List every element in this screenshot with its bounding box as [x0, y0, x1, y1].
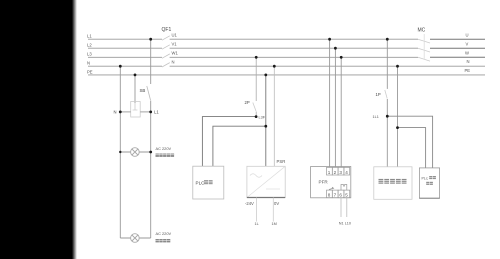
- junction PE-socket tap: [134, 74, 137, 77]
- breaker 2P blade: [253, 103, 256, 112]
- svg-text:3: 3: [339, 170, 342, 175]
- junction L2-PFR tap: [334, 47, 337, 50]
- relay PFR box: [311, 167, 351, 198]
- svg-text:4: 4: [345, 170, 348, 175]
- wire 1P lower: [386, 99, 388, 167]
- lamp EL label blobs: [156, 239, 171, 242]
- wire PSR -24V stub: [255, 198, 257, 222]
- svg-text:1M: 1M: [272, 222, 277, 226]
- svg-text:PFR: PFR: [319, 180, 329, 185]
- junction N-PSR tap: [273, 65, 276, 68]
- wire N bus: [88, 65, 485, 67]
- junction L1-SB tap: [149, 38, 152, 41]
- svg-text:W: W: [465, 51, 469, 56]
- svg-text:N: N: [87, 60, 90, 65]
- svg-text:MC: MC: [418, 28, 426, 34]
- svg-text:PLC: PLC: [422, 176, 429, 180]
- svg-text:N: N: [467, 59, 470, 64]
- svg-text:PSR: PSR: [277, 159, 286, 164]
- box electromagnet label blobs: [379, 179, 407, 184]
- junction N branch node: [396, 126, 399, 129]
- wire PFR out 6: [340, 198, 342, 217]
- svg-text:0V: 0V: [274, 201, 279, 206]
- svg-text:U: U: [466, 32, 469, 37]
- svg-text:PE: PE: [87, 69, 93, 74]
- wire PFR drop 2: [334, 48, 336, 167]
- svg-text:5: 5: [345, 193, 348, 198]
- junction L3-2P tap: [255, 56, 258, 59]
- junction L1-1P tap: [386, 38, 389, 41]
- wire socket L side: [140, 111, 151, 113]
- junction 1P out node 1L1: [386, 115, 389, 118]
- svg-text:V: V: [466, 41, 469, 46]
- junction lamp left: [119, 151, 121, 153]
- svg-text:-24V: -24V: [245, 201, 254, 206]
- svg-text:L1: L1: [87, 34, 92, 39]
- svg-text:L10: L10: [345, 222, 351, 226]
- svg-text:L3: L3: [87, 52, 92, 57]
- wire L2 bus: [88, 47, 418, 49]
- svg-text:2: 2: [334, 170, 337, 175]
- wire N drop to PSR: [273, 66, 275, 166]
- svg-text:1L1: 1L1: [373, 115, 379, 119]
- svg-text:U1: U1: [172, 33, 178, 38]
- wire to PLC input L: [387, 116, 432, 168]
- junction socket L1: [149, 111, 152, 114]
- svg-text:V1: V1: [172, 42, 178, 47]
- wire N drop: [119, 66, 121, 238]
- svg-text:N: N: [114, 110, 117, 115]
- lamp HL1 label blobs: [156, 154, 175, 157]
- wire L3 bus: [88, 56, 418, 58]
- svg-text:QF1: QF1: [162, 27, 172, 33]
- darker post-MC segments: [430, 39, 485, 57]
- relay PFR top terminals: [327, 167, 350, 175]
- junction socket N: [119, 111, 122, 114]
- svg-text:W1: W1: [172, 51, 179, 56]
- switch SB blade: [147, 86, 151, 100]
- wire to PLC input N: [398, 128, 426, 168]
- svg-text:1L: 1L: [255, 222, 259, 226]
- wire PFR drop 3: [340, 57, 342, 167]
- junction N-right tap: [396, 65, 399, 68]
- svg-text:N1: N1: [339, 222, 344, 226]
- junction PE branch node: [264, 125, 267, 128]
- wire N drop right: [397, 66, 399, 167]
- junction lamp right: [149, 151, 152, 154]
- wire 2P out: [255, 112, 257, 117]
- svg-text:7: 7: [334, 193, 337, 198]
- svg-text:SB: SB: [140, 88, 146, 93]
- box PSR supply: [247, 166, 285, 197]
- wire SB lower: [150, 101, 152, 239]
- socket XS box: [131, 102, 141, 118]
- wire to PLC psu N: [213, 126, 266, 166]
- wire socket N side: [120, 111, 130, 113]
- wire PE drop to socket: [134, 75, 136, 103]
- wire PSR 0V stub: [272, 198, 274, 222]
- wire L1 bus: [88, 38, 418, 40]
- contactor MC blades: [418, 34, 430, 61]
- svg-text:PLC: PLC: [196, 180, 206, 185]
- svg-text:L1: L1: [154, 110, 159, 115]
- relay PFR bottom terminals: [327, 190, 350, 198]
- box PLC input circuit: [419, 168, 439, 198]
- junction L3-PFR tap: [340, 56, 343, 59]
- relay PFR arrow mark: [329, 187, 334, 189]
- wire to PLC psu L: [202, 117, 256, 167]
- junction 2P out node L3F: [255, 115, 258, 118]
- svg-text:6: 6: [339, 193, 342, 198]
- junction PE-PSR tap: [264, 74, 267, 77]
- svg-text:L2: L2: [87, 43, 92, 48]
- svg-text:L3F: L3F: [259, 115, 266, 119]
- junction L1-PFR tap: [328, 38, 331, 41]
- relay PFR contact: [341, 185, 347, 191]
- breaker QF1 blades: [162, 36, 170, 67]
- svg-text:AC 220V: AC 220V: [156, 231, 172, 236]
- svg-text:1: 1: [328, 170, 331, 175]
- junction N-lamp tap: [119, 65, 122, 68]
- box PLC power supply: [193, 166, 224, 199]
- wire L3 drop to 2P breaker: [255, 57, 257, 101]
- svg-text:2P: 2P: [245, 100, 250, 105]
- svg-text:N: N: [172, 59, 175, 64]
- wire PFR drop 1: [329, 39, 331, 167]
- box electromagnet circuit: [374, 167, 412, 200]
- wire PE drop to PSR: [265, 75, 267, 166]
- breaker 1P blade: [385, 90, 387, 99]
- wire SB drop from L1: [150, 39, 152, 84]
- lamp HL1 indicator: [120, 151, 150, 153]
- svg-text:8: 8: [328, 193, 331, 198]
- svg-text:1P: 1P: [376, 92, 381, 97]
- lamp EL bottom: [120, 237, 150, 239]
- svg-text:PE: PE: [465, 68, 471, 73]
- wire L1 drop to 1P breaker: [386, 39, 388, 89]
- wire PFR out 5: [346, 198, 348, 217]
- wire PE bus: [88, 74, 485, 76]
- svg-text:AC 220V: AC 220V: [156, 146, 172, 151]
